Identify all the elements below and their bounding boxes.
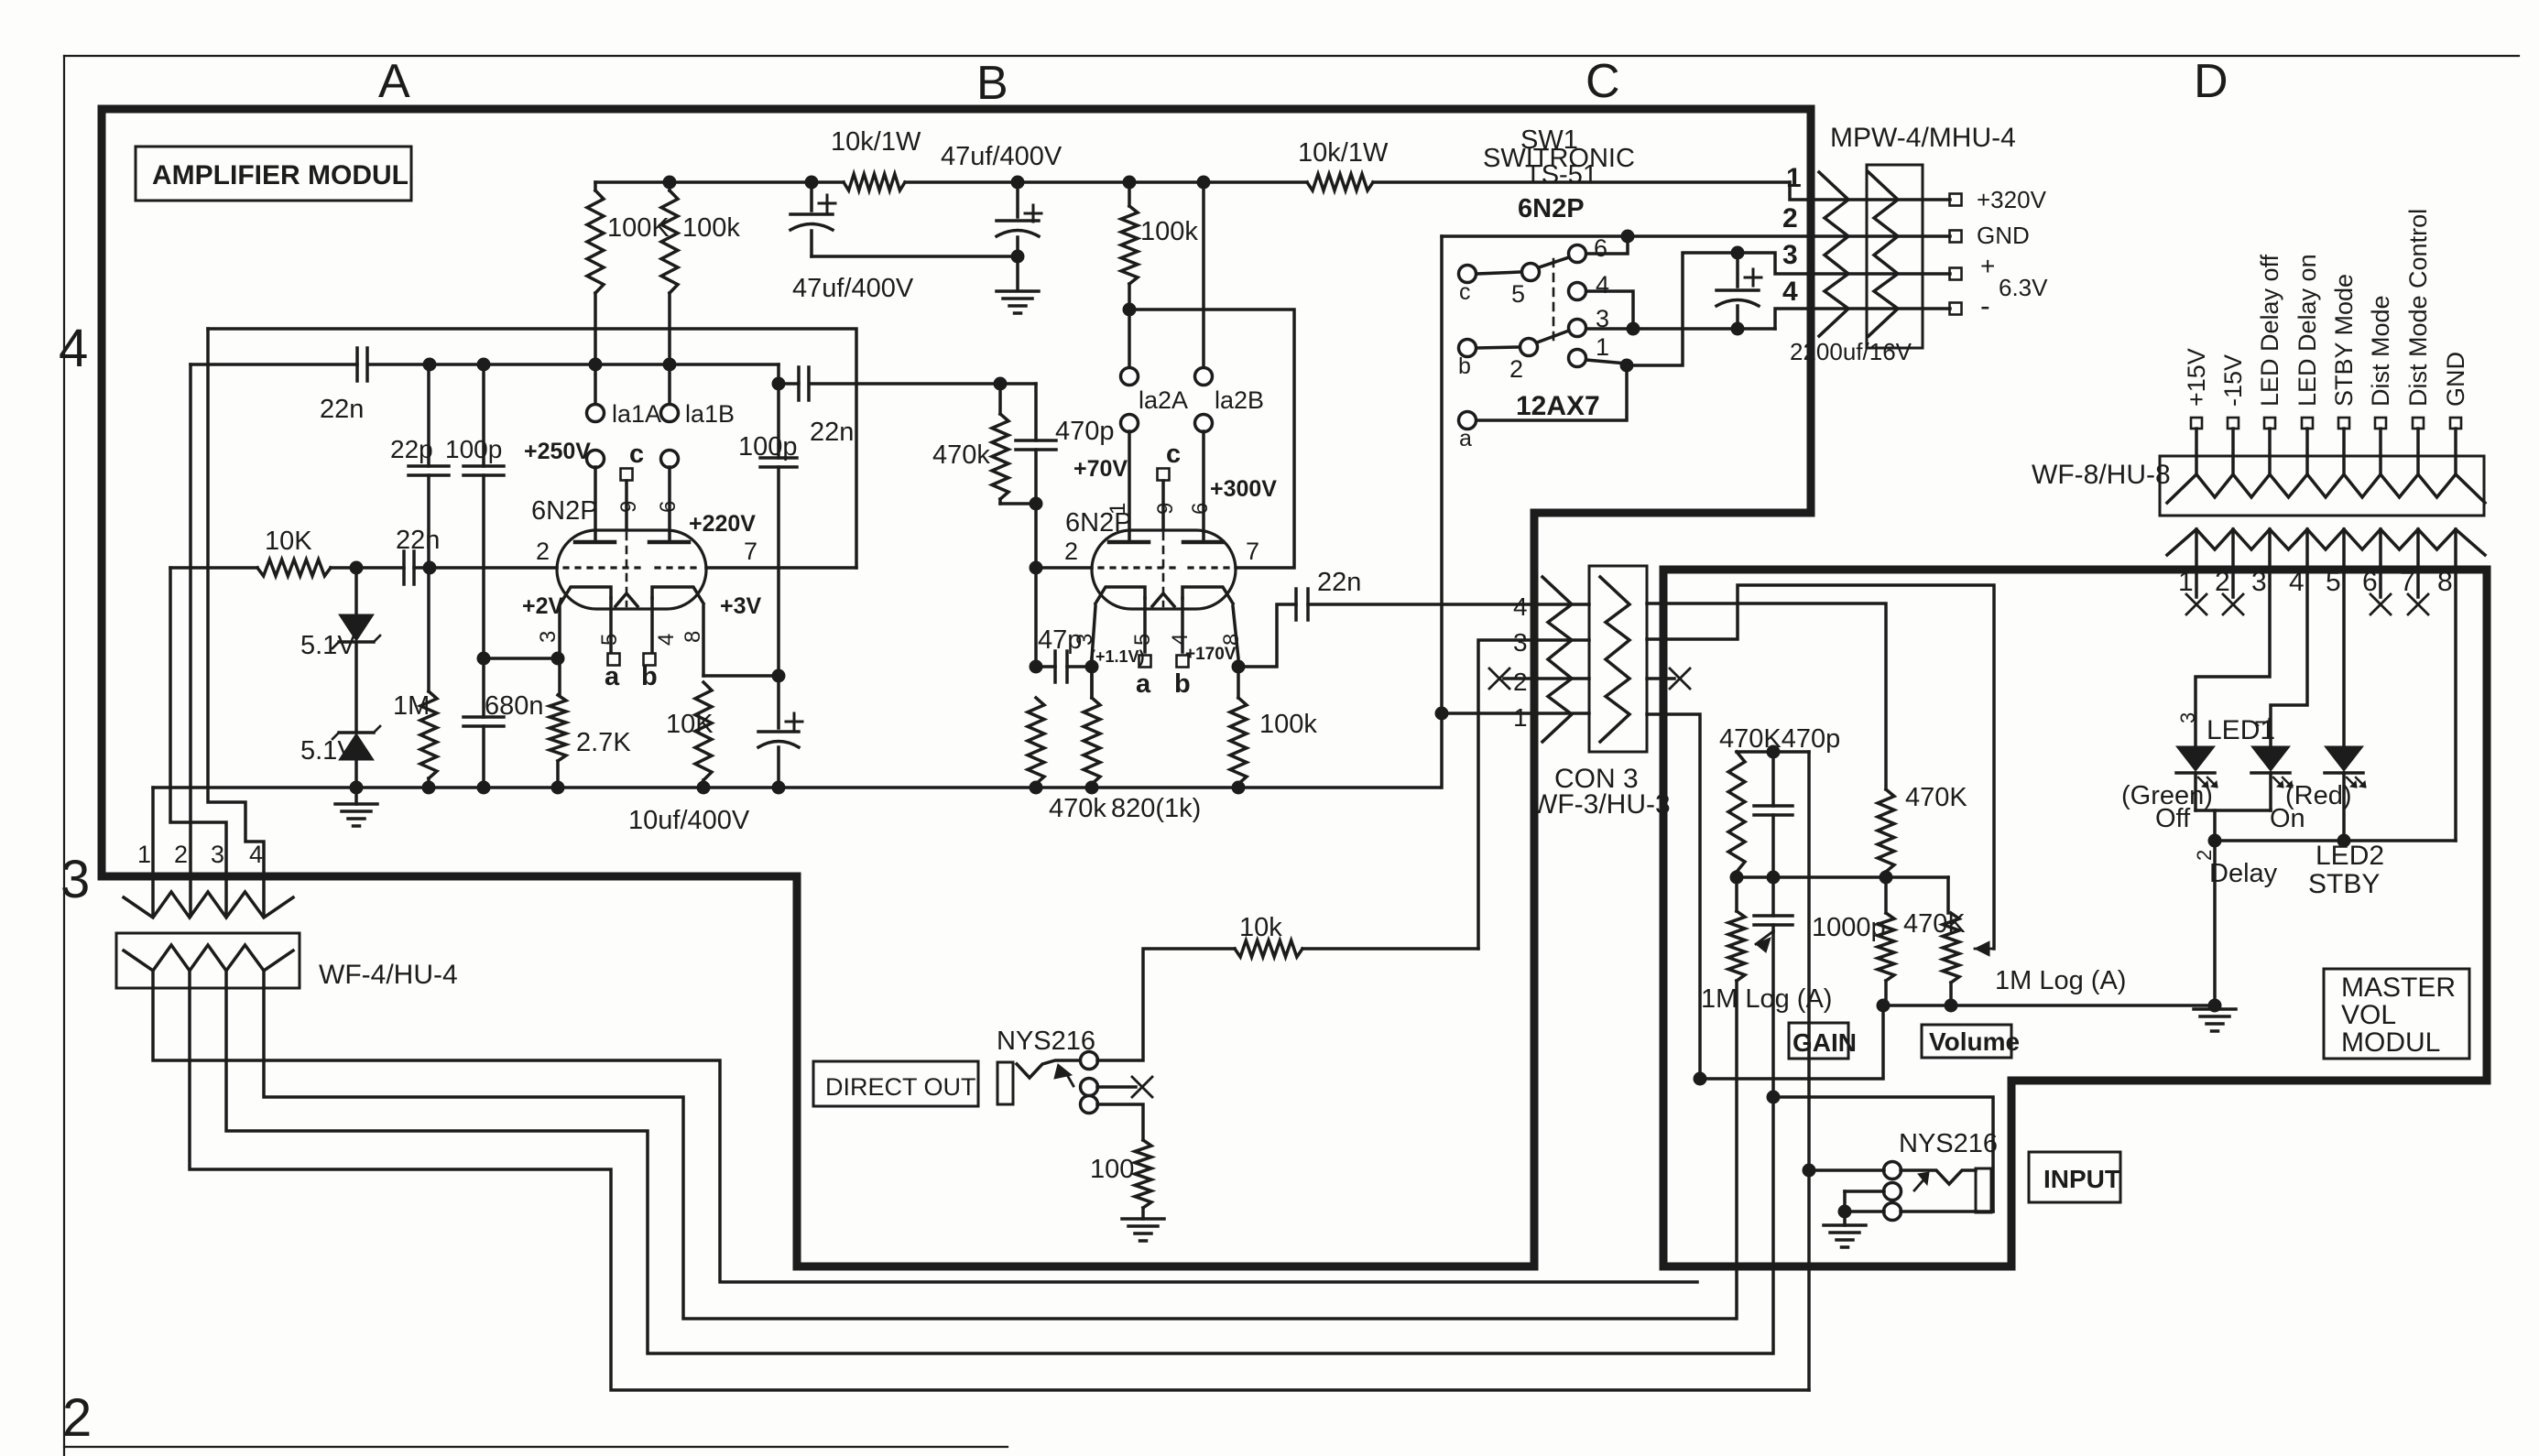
wire rail to MPW pin1	[1790, 182, 1950, 200]
svg-text:LED2: LED2	[2316, 841, 2384, 871]
DIRECT OUT ring terminal	[1081, 1079, 1098, 1096]
svg-text:b: b	[1174, 669, 1191, 699]
DIRECT OUT jack switch arrow	[1066, 1073, 1073, 1086]
V2 pin3 cathode lead	[1092, 606, 1095, 658]
svg-text:(+1.1V): (+1.1V)	[1090, 647, 1145, 666]
WF-8 terminal square and label LED Delay off	[2264, 418, 2275, 429]
svg-text:+15V: +15V	[2183, 348, 2210, 407]
svg-text:2: 2	[62, 1388, 92, 1448]
WF-8 terminal square and label LED Delay on	[2302, 418, 2313, 429]
INPUT jack sleeve terminal	[1884, 1203, 1902, 1221]
sheet frame left line	[63, 56, 65, 1456]
svg-text:10k/1W: 10k/1W	[1298, 138, 1389, 168]
svg-text:1: 1	[137, 841, 151, 868]
svg-text:+70V: +70V	[1073, 456, 1128, 482]
svg-text:1M Log (A): 1M Log (A)	[1995, 966, 2126, 995]
svg-text:1M Log (A): 1M Log (A)	[1701, 984, 1832, 1014]
V1 pin9 dashed heater center line	[626, 533, 628, 606]
V1 anode lead B with la1B terminals	[668, 364, 671, 405]
capacitor 22n series in grid line	[402, 551, 406, 584]
resistor 2.7K cathode V1a	[550, 695, 566, 761]
sheet frame top line	[64, 55, 2519, 57]
WF-8 terminal square and label STBY Mode	[2338, 418, 2349, 429]
MPW-4 outside contact chain	[1819, 172, 1848, 336]
wire corner to 100p-right column	[779, 364, 799, 384]
svg-text:2: 2	[174, 841, 188, 868]
WF-8/HU-8 connector box	[2160, 456, 2484, 516]
capacitor 470p gain	[1771, 752, 1775, 806]
resistor 100	[1135, 1140, 1151, 1208]
resistor 10k/1W first	[844, 174, 905, 190]
svg-text:6: 6	[2362, 567, 2378, 597]
SW1 wire b to pole2	[1477, 347, 1520, 348]
svg-text:100k: 100k	[682, 213, 740, 243]
svg-text:22n: 22n	[1317, 568, 1361, 597]
svg-text:4: 4	[1513, 592, 1528, 621]
resistor 100k cathode V2b	[1237, 667, 1240, 698]
AMPLIFIER MODUL label box	[136, 147, 411, 201]
WF-4 connector entry chain	[124, 892, 293, 918]
svg-text:100p: 100p	[738, 432, 798, 462]
svg-text:680n: 680n	[485, 691, 544, 721]
wire 10K to 22n series	[331, 566, 404, 570]
svg-text:la1B: la1B	[685, 400, 735, 428]
V2 pin9 lead to square c	[1161, 481, 1165, 530]
wire input sleeve to jack body	[1901, 1210, 1993, 1213]
wire LED3 cathode	[2342, 773, 2346, 841]
WF-8 inside contact chain	[2167, 474, 2485, 503]
wire input sleeve to ground node	[1845, 1210, 1884, 1213]
wire 22n out to 470k node	[812, 382, 1036, 386]
resistor 100k plate load V2a	[1128, 182, 1131, 206]
wire rail corner to WF4 pin1	[151, 788, 155, 916]
svg-text:3: 3	[2251, 567, 2267, 597]
svg-text:4: 4	[59, 319, 88, 378]
wire anode node V2a to grid V2b	[1129, 310, 1294, 568]
svg-text:c: c	[629, 440, 644, 469]
wire sleeve to 100 resistor	[1097, 1104, 1143, 1140]
wire CON3 pin2 stub right with x	[1647, 677, 1674, 680]
svg-text:c: c	[1166, 440, 1181, 469]
zener diode 5.1V upper	[354, 568, 358, 614]
svg-text:STBY: STBY	[2308, 869, 2380, 899]
GAIN pot wiper arrow	[1756, 931, 1773, 944]
svg-text:c: c	[1459, 279, 1471, 305]
capacitor 47uf/400V first (electrolytic)	[810, 182, 813, 211]
svg-text:470p: 470p	[1055, 417, 1115, 446]
svg-text:Volume: Volume	[1929, 1027, 2020, 1056]
wire delay node down	[2213, 810, 2217, 841]
wire WF8 pin3 to LED1	[2196, 570, 2270, 746]
svg-text:DIRECT OUT: DIRECT OUT	[825, 1073, 976, 1101]
wire CON3 pin4 right to 470K divider	[1647, 603, 1886, 789]
wire 2200uf plus to MPW pin3	[1627, 253, 1950, 365]
svg-text:WF-3/HU-3: WF-3/HU-3	[1531, 789, 1671, 820]
capacitor 100p	[482, 364, 485, 466]
Volume pot wiper arrow	[1975, 948, 1994, 951]
resistor 10K grid stopper	[257, 560, 331, 576]
svg-text:5: 5	[2326, 567, 2341, 597]
wire top rail B+	[595, 180, 844, 184]
terminal square -6.3V	[1950, 303, 1962, 315]
capacitor 2200uf/16V electrolytic	[1736, 253, 1739, 287]
DIRECT OUT jack tip spring	[1017, 1060, 1081, 1078]
capacitor 22n top-left	[355, 348, 359, 381]
svg-text:7: 7	[744, 538, 757, 565]
V1 cathode left	[561, 587, 611, 603]
svg-text:470k: 470k	[1049, 794, 1106, 823]
svg-text:la1A: la1A	[612, 400, 661, 428]
WF-8 terminal square and label +15V	[2191, 418, 2202, 429]
wire CON3 pin1 from rail riser	[1442, 712, 1589, 715]
wire V2 pin8 to 22n output cap	[1238, 604, 1296, 667]
V2 cathode right	[1182, 587, 1233, 603]
wire riser CON3 pin1 / rail to y258	[1440, 236, 1444, 788]
SW1 wire contact3 to cap minus	[1586, 327, 1775, 331]
wire cap minus to MPW pin4	[1775, 309, 1950, 329]
capacitor 22p	[427, 364, 430, 466]
MPW-4 inside contact chain	[1869, 172, 1898, 336]
WF-8 terminal square and label Dist Mode Control	[2413, 418, 2424, 429]
wire STBY line y918	[2215, 839, 2456, 842]
svg-text:WF-8/HU-8: WF-8/HU-8	[2032, 460, 2171, 490]
svg-text:STBY Mode: STBY Mode	[2330, 274, 2358, 407]
svg-text:LED Delay off: LED Delay off	[2256, 254, 2283, 407]
svg-text:a: a	[605, 662, 620, 691]
svg-text:MASTER: MASTER	[2341, 972, 2456, 1003]
svg-text:4: 4	[1596, 271, 1609, 299]
resistor 100K plate load V1a	[594, 182, 597, 190]
capacitor 47uf/400V second (electrolytic)	[1016, 182, 1019, 217]
svg-text:470K470p: 470K470p	[1719, 724, 1840, 754]
WF-8 pin6 stub with x	[2379, 570, 2382, 597]
WF-4 pin stem x247	[224, 971, 228, 988]
svg-text:MPW-4/MHU-4: MPW-4/MHU-4	[1830, 123, 2016, 153]
WF-4 pin stem x207	[188, 971, 191, 988]
svg-text:3: 3	[60, 850, 90, 909]
V2 grid dashes	[1099, 566, 1174, 569]
wire grid line V1 left	[170, 566, 257, 570]
svg-text:Off: Off	[2155, 804, 2191, 833]
svg-text:B: B	[976, 57, 1008, 110]
svg-text:12AX7: 12AX7	[1516, 391, 1600, 421]
wire grid node to 47p	[1034, 568, 1038, 667]
svg-text:2: 2	[536, 538, 550, 565]
zener diode 5.1V lower	[354, 644, 358, 732]
svg-text:22p: 22p	[390, 435, 433, 463]
SW1 wire a to plus node	[1477, 365, 1627, 420]
svg-text:A: A	[378, 55, 410, 108]
svg-text:WF-4/HU-4: WF-4/HU-4	[319, 960, 458, 990]
wire 680n node to cathode pin3	[484, 657, 558, 660]
svg-text:1: 1	[1596, 333, 1609, 361]
resistor 100k plate load V1b	[668, 182, 671, 190]
V2 heater chevron	[1152, 593, 1174, 606]
V1 pin8 cathode lead	[702, 606, 705, 676]
svg-text:7: 7	[1246, 538, 1259, 565]
terminal square GND	[1950, 231, 1962, 243]
SW1 contact b	[1459, 340, 1477, 357]
svg-text:5: 5	[1511, 280, 1525, 308]
svg-text:820(1k): 820(1k)	[1111, 794, 1201, 823]
wire input tip to gain network	[1809, 1168, 1884, 1172]
svg-text:5: 5	[597, 634, 622, 646]
resistor 10K cathode V1b	[695, 682, 712, 780]
SW1 wire c to pole5	[1477, 272, 1521, 274]
terminal square +320V	[1950, 194, 1962, 206]
wire WF4 pin2 out	[190, 988, 1809, 1390]
svg-text:22n: 22n	[396, 526, 440, 555]
svg-text:VOL: VOL	[2341, 1000, 2396, 1030]
wire cathode ground rail	[153, 786, 1441, 789]
V1 heater chevron	[616, 593, 637, 606]
svg-text:10K: 10K	[265, 527, 312, 556]
svg-text:9: 9	[1153, 503, 1178, 515]
svg-text:3: 3	[1513, 628, 1528, 657]
svg-text:a: a	[1136, 669, 1151, 699]
wire WF4 pin4 out	[264, 988, 1735, 1319]
svg-text:2: 2	[1782, 203, 1798, 234]
svg-text:+2V: +2V	[522, 593, 564, 619]
svg-text:+170V: +170V	[1185, 645, 1237, 664]
V2 pin9 dashed line	[1162, 533, 1165, 606]
WF-4 pin stem x167	[151, 971, 155, 988]
wire WF4 pin1 out	[153, 988, 1697, 1282]
capacitor 470p parallel	[1034, 384, 1038, 440]
DIRECT OUT label box	[813, 1061, 978, 1106]
svg-text:la2A: la2A	[1139, 386, 1188, 414]
junction dots on rail	[663, 176, 677, 190]
SW1 wire contact4 down to y359	[1586, 291, 1633, 329]
svg-text:On: On	[2270, 804, 2305, 833]
svg-text:LED Delay on: LED Delay on	[2294, 254, 2321, 407]
svg-text:4: 4	[654, 634, 679, 646]
LED1 green	[2176, 746, 2215, 771]
svg-text:GND: GND	[1977, 222, 2030, 249]
svg-text:100K: 100K	[607, 213, 670, 243]
SW1 pole 2 with lever to contact 3	[1520, 339, 1538, 356]
svg-text:100k: 100k	[1259, 710, 1317, 739]
wire 470k bottom link	[1000, 502, 1036, 505]
svg-text:2: 2	[1509, 355, 1523, 383]
svg-text:4: 4	[249, 841, 263, 868]
svg-text:1: 1	[1513, 703, 1528, 732]
svg-text:MODUL: MODUL	[2341, 1027, 2440, 1058]
svg-text:8: 8	[681, 631, 705, 643]
ground below second 47uf	[997, 289, 1039, 293]
svg-text:100k: 100k	[1140, 217, 1198, 246]
SW1 contact 6	[1569, 245, 1586, 263]
wire direct-out 10k to CON3 pin3	[1478, 640, 1589, 949]
svg-text:6N2P: 6N2P	[1518, 194, 1585, 223]
svg-text:2: 2	[2215, 567, 2230, 597]
WF-8 lower contact chain	[2167, 529, 2485, 555]
INPUT jack tip spring	[1901, 1170, 1976, 1184]
svg-text:8: 8	[1219, 634, 1244, 646]
resistor 470k cathode V2a	[1028, 698, 1044, 784]
WF-8 terminal square and label GND	[2450, 418, 2461, 429]
wire gain wiper riser to WF4 wire3	[1771, 1097, 1775, 1353]
svg-text:3: 3	[2176, 712, 2199, 723]
wire gain wiper node down	[1771, 931, 1775, 1097]
svg-text:NYS216: NYS216	[997, 1027, 1095, 1056]
triode V1 6N2P envelope	[557, 530, 706, 609]
svg-text:+320V: +320V	[1977, 186, 2047, 213]
svg-text:LED1: LED1	[2207, 715, 2275, 745]
MASTER VOL MODUL label box	[2324, 969, 2469, 1059]
wire WF8 pin8 down to STBY line	[2454, 570, 2457, 841]
wire zener to rail	[354, 761, 358, 788]
wire 470p node down to grid	[1036, 566, 1092, 570]
wire grid line to WF4 pin3	[170, 568, 226, 916]
svg-text:47uf/400V: 47uf/400V	[941, 142, 1062, 171]
wire pin8 to 10uf	[703, 674, 779, 678]
svg-text:4: 4	[1168, 634, 1193, 646]
WF-4/HU-4 connector box	[116, 933, 300, 988]
svg-text:Delay: Delay	[2209, 859, 2278, 888]
DIRECT OUT jack sleeve body	[997, 1062, 1013, 1104]
V2 pin5 lead to square a	[1143, 598, 1147, 652]
svg-text:6: 6	[1594, 234, 1607, 262]
svg-text:b: b	[641, 662, 658, 691]
sheet frame bottom-left line	[64, 1446, 1008, 1448]
svg-text:6.3V: 6.3V	[1999, 274, 2048, 301]
svg-text:2: 2	[1064, 538, 1078, 565]
SW1 contact 3	[1569, 320, 1586, 337]
wire CON3 pin1 right to gain pot riser	[1647, 714, 1700, 1079]
capacitor 100p over V1b	[777, 384, 780, 458]
svg-text:47p: 47p	[1038, 625, 1082, 655]
svg-text:GAIN: GAIN	[1793, 1028, 1857, 1057]
svg-text:22n: 22n	[810, 418, 854, 447]
svg-text:+250V: +250V	[524, 439, 591, 464]
V2 anode bar left	[1109, 540, 1149, 545]
resistor 1M	[427, 568, 430, 691]
wire link between 47uf caps	[812, 255, 1018, 258]
CON3 inside contact chain	[1600, 577, 1629, 742]
terminal square +6.3V	[1950, 268, 1962, 280]
svg-text:+: +	[1980, 252, 1995, 280]
svg-text:10k: 10k	[1239, 913, 1282, 942]
WF-8 terminal square and label Dist Mode	[2375, 418, 2386, 429]
amplifier module thick border	[102, 109, 1811, 1266]
wire node823 down to input tip and WF4 wire4	[1807, 752, 1811, 1390]
WF-4 pin stem x288	[262, 971, 266, 988]
svg-text:TS-51: TS-51	[1525, 160, 1597, 190]
svg-text:6N2P: 6N2P	[531, 496, 598, 526]
svg-text:2200uf/16V: 2200uf/16V	[1790, 338, 1912, 365]
capacitor 1000p	[1771, 877, 1775, 916]
svg-text:2: 2	[1513, 668, 1528, 696]
capacitor 47p	[1036, 665, 1055, 668]
wire wiper node to input jack sleeve	[1773, 1097, 1993, 1212]
svg-text:-15V: -15V	[2219, 354, 2247, 407]
svg-text:b: b	[1458, 353, 1471, 379]
V2 anode lead A terminals la2A	[1128, 310, 1131, 368]
svg-text:GND: GND	[2442, 352, 2469, 407]
svg-text:5: 5	[1130, 634, 1155, 646]
wire tap line y958	[1737, 875, 1948, 879]
wire GND line y258 from CON3 pin1 riser to MPW pin2	[1442, 234, 1950, 238]
potentiometer 1M Log (A) GAIN	[1735, 877, 1738, 911]
wire LED1+LED2 cathodes join	[2194, 773, 2197, 810]
svg-text:1M: 1M	[393, 691, 430, 721]
V2 pin8 cathode lead	[1233, 606, 1238, 667]
INPUT label box	[2029, 1152, 2120, 1202]
svg-text:a: a	[1459, 426, 1472, 451]
MPW-4 connector box	[1867, 165, 1923, 348]
wire WF8 pin4 to LED2a	[2271, 570, 2307, 746]
svg-text:1: 1	[1106, 503, 1130, 515]
wire 22n line y398	[191, 363, 357, 366]
wire tip to 10k	[1097, 949, 1235, 1060]
V2 pin4 lead to square b	[1181, 598, 1184, 652]
svg-text:4: 4	[2289, 567, 2305, 597]
INPUT jack sleeve body	[1976, 1168, 1991, 1212]
wire WF8 pin5 to LED3	[2342, 570, 2346, 746]
V2 anode lead B terminals la2B	[1202, 182, 1205, 368]
DIRECT OUT tip terminal	[1081, 1052, 1098, 1070]
svg-text:1: 1	[1786, 163, 1802, 193]
wire gain pot bottom riser to WF4 wire2	[1735, 981, 1738, 1319]
triode V2 6N2P envelope	[1092, 530, 1236, 609]
V1 pin3 cathode lead	[558, 606, 561, 658]
svg-text:AMPLIFIER MODUL: AMPLIFIER MODUL	[152, 160, 409, 190]
V1 cathode right	[652, 587, 703, 603]
svg-text:1: 1	[2178, 567, 2194, 597]
svg-text:47uf/400V: 47uf/400V	[792, 274, 914, 303]
INPUT jack tip terminal	[1884, 1162, 1902, 1179]
capacitor 22n coupling V1 to V2	[797, 367, 801, 400]
capacitor 10uf/400V cathode bypass	[777, 676, 780, 728]
SW1 wire contact6 to GND line	[1586, 236, 1628, 254]
wire feedback line to WF4 pin4	[208, 329, 264, 916]
svg-text:Dist Mode: Dist Mode	[2367, 295, 2394, 407]
wire 22n to tube V1 grid pin2	[414, 566, 557, 570]
svg-text:NYS216: NYS216	[1899, 1129, 1998, 1158]
svg-text:2.7K: 2.7K	[576, 728, 631, 757]
SW1 wire contact1 to cap plus line	[1586, 360, 1627, 365]
svg-text:C: C	[1586, 55, 1620, 108]
svg-text:10K: 10K	[666, 710, 714, 739]
wire CON3 pin1 net to ground line	[1700, 1005, 1883, 1079]
INPUT jack switch arrow	[1914, 1176, 1927, 1190]
wire CON3 pin2 stub left with x	[1504, 677, 1589, 680]
WF-4 inside contact chain	[124, 945, 293, 971]
ground symbol on rail	[354, 788, 358, 804]
wire node 823 top link	[1737, 750, 1809, 754]
GAIN label box	[1789, 1023, 1848, 1059]
V1 grid dashes	[564, 566, 641, 569]
LED3 STBY	[2325, 746, 2363, 771]
master vol module thick border	[1663, 570, 2487, 1266]
resistor 10k to pin3 line	[1235, 940, 1302, 957]
V1 pin9 lead to square c	[625, 481, 628, 530]
wire grid V1b to feedback	[706, 566, 856, 570]
svg-text:4: 4	[1782, 277, 1798, 307]
SW1 contact 1	[1569, 350, 1586, 367]
LED2a red	[2251, 746, 2290, 771]
WF-8 pin stubs through border	[2195, 529, 2198, 570]
SW1 pole 5 with lever to contact 6	[1522, 264, 1540, 281]
WF-8 pin1 stub with x	[2195, 570, 2198, 597]
svg-text:8: 8	[2437, 567, 2453, 597]
V1 anode lead A with la1A terminals	[594, 364, 597, 405]
WF-8 pin7 stub with x	[2416, 570, 2420, 597]
SW1 contact c	[1459, 266, 1477, 283]
svg-text:+300V: +300V	[1210, 476, 1277, 502]
svg-text:10uf/400V: 10uf/400V	[628, 806, 750, 835]
